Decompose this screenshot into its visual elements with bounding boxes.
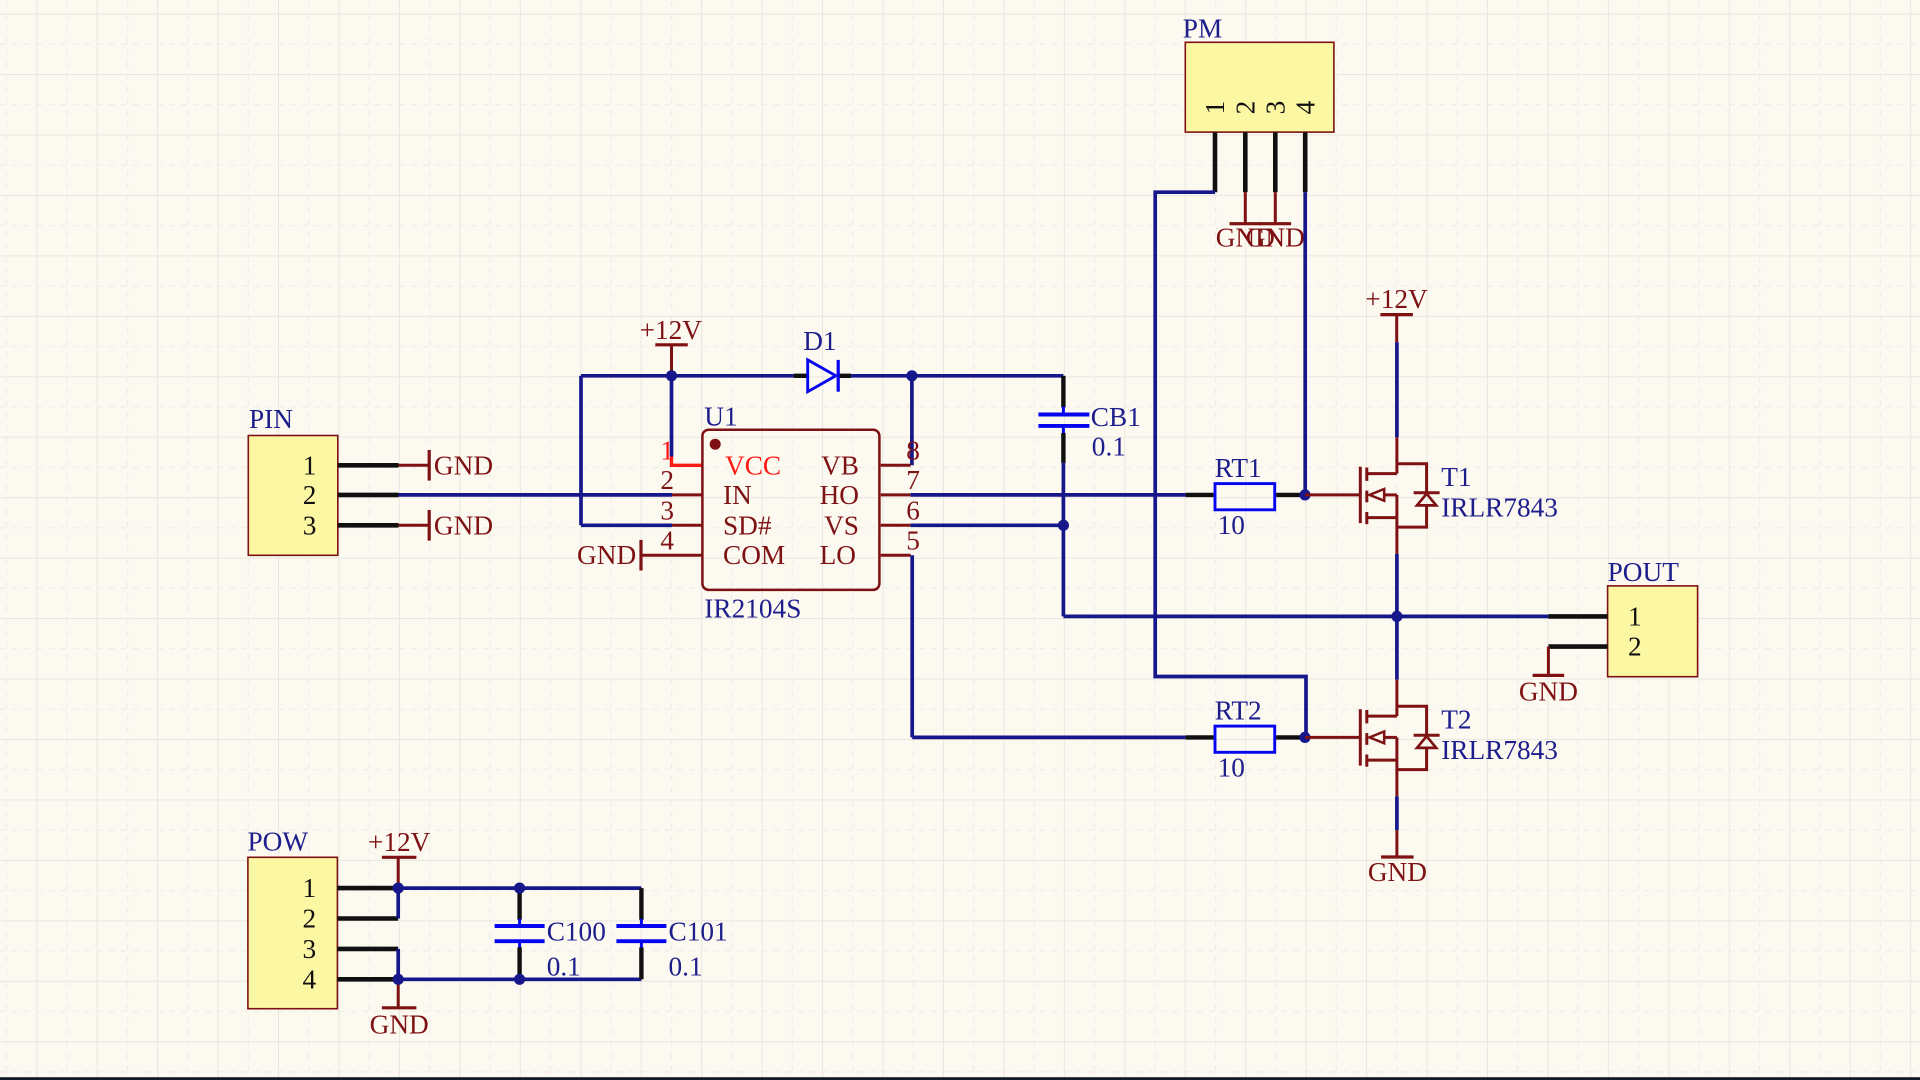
capacitor C100 bottom lead bbox=[517, 947, 521, 977]
transistor T1 (N-MOSFET with body diode) bbox=[1305, 437, 1440, 554]
svg-text:GND: GND bbox=[370, 1009, 429, 1039]
junction at +12V / top rail bbox=[666, 370, 677, 381]
svg-text:1: 1 bbox=[1200, 101, 1230, 115]
svg-text:IRLR7843: IRLR7843 bbox=[1441, 735, 1558, 765]
connector POW body bbox=[248, 857, 338, 1008]
svg-text:CB1: CB1 bbox=[1091, 402, 1141, 432]
connector PIN pin 1 lead bbox=[338, 463, 399, 468]
capacitor CB1 plates bbox=[1038, 407, 1089, 435]
svg-text:D1: D1 bbox=[803, 326, 836, 356]
IC U1 pin-1 dot bbox=[710, 439, 721, 450]
diode D1 triangle bbox=[808, 360, 836, 392]
wire LO net: horizontal to RT2 bbox=[912, 736, 1185, 740]
svg-text:LO: LO bbox=[820, 540, 856, 570]
wire red VCC pin segment bbox=[672, 457, 703, 466]
capacitor C101 bottom lead bbox=[639, 947, 643, 979]
wire GND rail to C101 bbox=[398, 977, 641, 981]
svg-text:4: 4 bbox=[1290, 100, 1320, 114]
svg-text:VS: VS bbox=[824, 510, 859, 540]
connector PIN pin 2 lead bbox=[338, 493, 399, 498]
wire GND tie POW pins 3-4 bbox=[396, 949, 400, 979]
wire +12V tie POW pins 1-2 bbox=[396, 888, 400, 918]
connector POUT pin 2 lead bbox=[1548, 644, 1607, 649]
svg-text:+12V: +12V bbox=[640, 315, 703, 345]
wire T1 source to phase junction bbox=[1395, 554, 1399, 617]
connector PM pin 4 lead bbox=[1303, 132, 1308, 192]
connector PM pin 1 lead bbox=[1213, 132, 1218, 192]
resistor RT2 body bbox=[1215, 726, 1275, 752]
svg-text:0.1: 0.1 bbox=[547, 951, 581, 981]
U1 pin 8 stub bbox=[881, 464, 911, 467]
svg-text:7: 7 bbox=[906, 465, 920, 495]
svg-text:+12V: +12V bbox=[368, 827, 431, 857]
svg-text:COM: COM bbox=[723, 540, 785, 570]
svg-text:3: 3 bbox=[303, 510, 317, 540]
svg-text:VB: VB bbox=[821, 450, 859, 480]
svg-text:RT1: RT1 bbox=[1215, 453, 1262, 483]
U1 pin 4 stub bbox=[641, 554, 702, 557]
svg-text:2: 2 bbox=[1231, 101, 1261, 115]
resistor RT1 body bbox=[1215, 484, 1275, 510]
svg-text:4: 4 bbox=[303, 964, 317, 994]
resistor RT1 right lead bbox=[1276, 493, 1303, 497]
svg-text:HO: HO bbox=[820, 480, 859, 510]
wire PM pin1 net: top jog bbox=[1155, 192, 1306, 737]
svg-text:3: 3 bbox=[1261, 101, 1291, 115]
svg-text:POUT: POUT bbox=[1608, 557, 1680, 587]
ground symbol at POUT pin 2 bbox=[1519, 647, 1578, 707]
svg-text:3: 3 bbox=[303, 934, 317, 964]
svg-text:1: 1 bbox=[303, 450, 317, 480]
wire VCC top rail: D1 cathode to CB1 corner bbox=[851, 374, 1063, 378]
wire VCC top rail: left segment to D1 anode bbox=[581, 374, 794, 378]
junction C100 top bbox=[514, 883, 525, 894]
wire LO net: vertical drop from U1 pin5 bbox=[910, 555, 914, 737]
wire VS net: U1 pin6 to CB1 bbox=[911, 523, 1064, 527]
wire SD# net: vertical from top rail bbox=[579, 376, 583, 526]
resistor RT2 right lead bbox=[1276, 735, 1303, 739]
svg-text:0.1: 0.1 bbox=[1092, 432, 1126, 462]
svg-text:GND: GND bbox=[434, 510, 493, 540]
capacitor CB1 top pin lead bbox=[1061, 376, 1065, 408]
capacitor C101 top lead bbox=[639, 888, 643, 920]
IC U1 body bbox=[702, 430, 879, 590]
capacitor C100 plates bbox=[495, 919, 545, 949]
connector PM pin 2 lead bbox=[1243, 132, 1248, 192]
junction RT2 / PM1 net / T2 gate bbox=[1299, 732, 1310, 743]
connector PM body bbox=[1185, 42, 1334, 132]
svg-text:2: 2 bbox=[303, 480, 317, 510]
svg-text:T2: T2 bbox=[1441, 705, 1471, 735]
svg-text:GND: GND bbox=[434, 450, 493, 480]
svg-text:1: 1 bbox=[303, 873, 317, 903]
junction +12V at POW pin1 bbox=[393, 883, 404, 894]
junction C100 bottom bbox=[514, 974, 525, 985]
capacitor C100 top lead bbox=[517, 890, 521, 920]
svg-text:1: 1 bbox=[660, 436, 674, 466]
svg-text:0.1: 0.1 bbox=[669, 951, 703, 981]
U1 pin 3 stub bbox=[672, 524, 702, 527]
svg-text:8: 8 bbox=[906, 436, 920, 466]
svg-text:+12V: +12V bbox=[1365, 284, 1428, 314]
svg-text:IRLR7843: IRLR7843 bbox=[1441, 492, 1558, 522]
U1 pin 7 stub bbox=[881, 493, 911, 496]
connector POW pin 2 lead bbox=[337, 916, 398, 921]
connector PIN body bbox=[248, 436, 337, 556]
wire phase junction to T2 drain bbox=[1395, 616, 1399, 679]
svg-text:1: 1 bbox=[1628, 601, 1642, 631]
svg-text:GND: GND bbox=[1246, 222, 1305, 252]
wire T2 source down bbox=[1395, 796, 1399, 830]
wire phase net to POUT bbox=[1063, 615, 1548, 619]
wire +12V to T1 drain bbox=[1395, 342, 1399, 437]
connector POUT body bbox=[1608, 586, 1698, 677]
transistor T2 (N-MOSFET with body diode) bbox=[1305, 680, 1440, 797]
wire +12V rail to C101 bbox=[398, 886, 641, 890]
junction CB1/VS bbox=[1058, 520, 1069, 531]
svg-text:2: 2 bbox=[1628, 632, 1642, 662]
diode D1 cathode pin lead bbox=[838, 374, 851, 378]
diode D1 cathode bar bbox=[837, 360, 840, 392]
wire SD# net: horizontal to U1 pin3 bbox=[581, 523, 672, 527]
resistor RT1 left lead bbox=[1186, 493, 1214, 497]
connector POW pin 3 lead bbox=[337, 947, 398, 952]
svg-text:C100: C100 bbox=[547, 916, 606, 946]
svg-text:T1: T1 bbox=[1441, 462, 1471, 492]
ground symbol at POW pin 4 bbox=[370, 979, 429, 1039]
wire HO net: U1 pin7 to RT1 bbox=[911, 493, 1186, 497]
svg-text:2: 2 bbox=[303, 904, 317, 934]
resistor RT2 left lead bbox=[1186, 735, 1214, 739]
svg-text:PM: PM bbox=[1183, 14, 1222, 44]
wire CB1 bottom to VS and phase node bbox=[1062, 463, 1066, 617]
capacitor C101 plates bbox=[616, 919, 666, 949]
svg-text:GND: GND bbox=[1519, 676, 1578, 706]
svg-text:10: 10 bbox=[1218, 752, 1245, 782]
svg-text:5: 5 bbox=[906, 526, 920, 556]
svg-text:SD#: SD# bbox=[723, 510, 772, 540]
svg-text:GND: GND bbox=[577, 540, 636, 570]
svg-text:2: 2 bbox=[660, 465, 674, 495]
svg-text:PIN: PIN bbox=[249, 404, 293, 434]
ground symbol at PIN pin 3 bbox=[399, 510, 494, 541]
svg-text:10: 10 bbox=[1218, 510, 1245, 540]
svg-text:4: 4 bbox=[660, 526, 674, 556]
wire VB drop to U1 pin8 bbox=[910, 376, 914, 466]
connector POW pin 4 lead bbox=[337, 977, 398, 982]
svg-text:IN: IN bbox=[723, 480, 752, 510]
wire IN net: PIN pin2 to U1 pin2 bbox=[399, 493, 673, 497]
svg-text:VCC: VCC bbox=[725, 450, 781, 480]
connector PIN pin 3 lead bbox=[338, 523, 399, 528]
ground symbol at T2 source bbox=[1368, 830, 1427, 887]
svg-text:IR2104S: IR2104S bbox=[704, 593, 801, 623]
junction at D1 cathode / VB drop bbox=[906, 370, 917, 381]
svg-text:C101: C101 bbox=[669, 916, 728, 946]
ground symbol at PIN pin 1 bbox=[399, 450, 494, 481]
power symbol +12V at U1 VCC bbox=[640, 315, 703, 376]
connector POUT pin 1 lead bbox=[1548, 614, 1607, 619]
ground symbol at PM pin 2 bbox=[1216, 192, 1275, 252]
svg-text:3: 3 bbox=[660, 496, 674, 526]
svg-text:GND: GND bbox=[1368, 857, 1427, 887]
power symbol +12V at T1 drain bbox=[1365, 284, 1428, 342]
svg-text:RT2: RT2 bbox=[1215, 696, 1262, 726]
connector POW pin 1 lead bbox=[337, 886, 398, 891]
junction phase node bbox=[1391, 611, 1402, 622]
svg-text:6: 6 bbox=[906, 496, 920, 526]
ground symbol at U1 COM bbox=[577, 540, 641, 571]
wire VCC drop to U1 pin1 bbox=[670, 376, 674, 457]
junction GND at POW pin4 bbox=[393, 974, 404, 985]
junction RT1 / PM4 / T1 gate bbox=[1299, 489, 1310, 500]
connector PM pin 3 lead bbox=[1273, 132, 1278, 192]
capacitor CB1 bottom pin lead bbox=[1061, 433, 1065, 463]
power symbol +12V at POW bbox=[368, 827, 431, 886]
U1 pin 5 stub bbox=[881, 554, 911, 557]
U1 pin 2 stub bbox=[672, 493, 702, 496]
ground symbol at PM pin 3 bbox=[1246, 192, 1305, 252]
diode D1 anode pin lead bbox=[794, 374, 809, 378]
U1 pin 6 stub bbox=[881, 524, 911, 527]
svg-text:POW: POW bbox=[248, 827, 309, 857]
wire PM pin4 net: drop to T1 gate junction bbox=[1303, 192, 1307, 495]
svg-text:U1: U1 bbox=[704, 401, 737, 431]
